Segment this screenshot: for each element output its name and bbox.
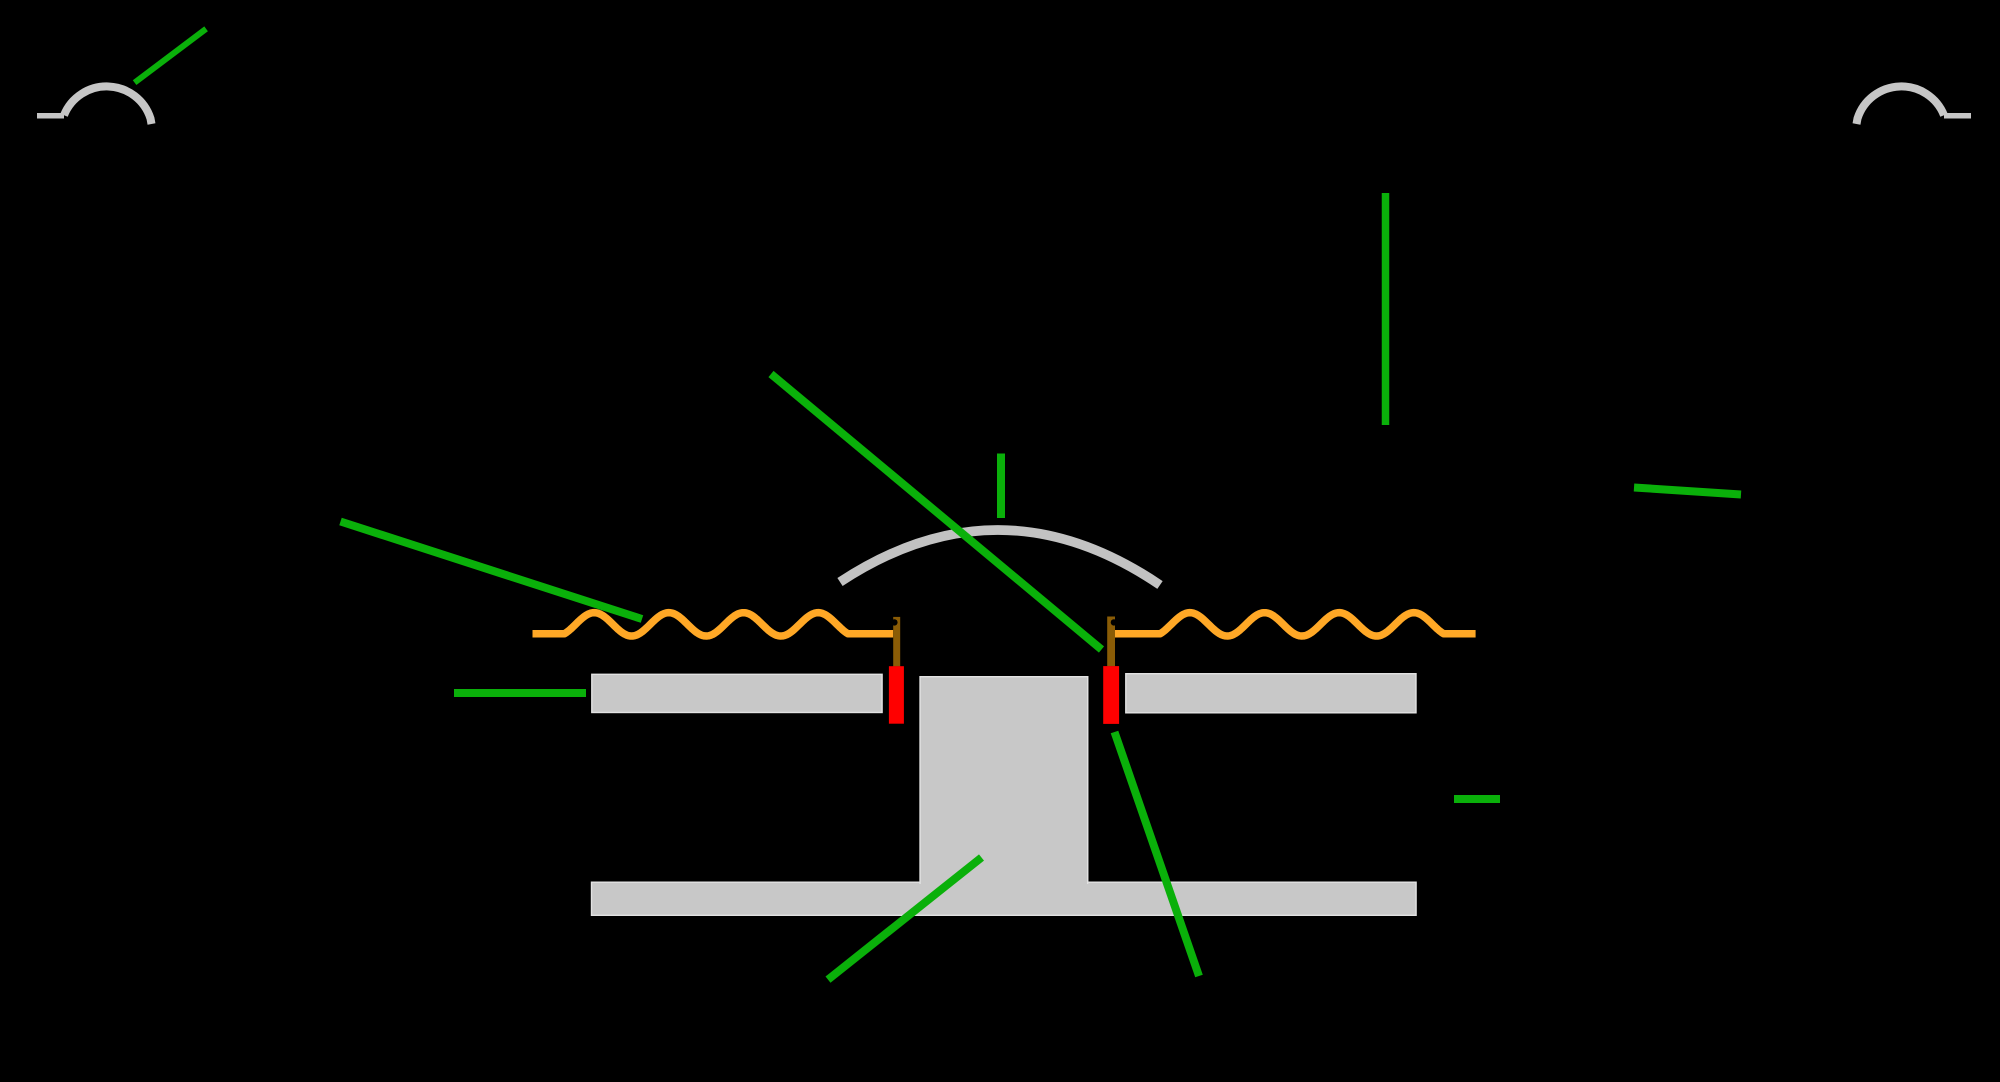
bond wire (right) xyxy=(1107,617,1117,667)
leader line L5 (long diagonal) xyxy=(771,374,1102,650)
membrane (corrugated, left half) xyxy=(533,613,894,636)
leader line L8 (short horizontal bar, right) xyxy=(1454,795,1500,803)
central pedestal block xyxy=(919,676,1088,884)
dome (diaphragm dust cap) xyxy=(840,530,1160,585)
case lid arc (top left) xyxy=(37,86,152,124)
leader line L9 (to pedestal, bottom left) xyxy=(828,858,982,980)
solder contact (right red) xyxy=(1103,666,1119,724)
leader line L10 (to solder contact, bottom right) xyxy=(1115,732,1200,976)
leader line L6 (to membrane, left) xyxy=(341,522,643,620)
leader line L2 (vertical, upper right) xyxy=(1382,193,1390,425)
case lid arc (top right) xyxy=(1857,86,1972,124)
bottom plate (substrate) xyxy=(592,882,1417,915)
solder contact (left red) xyxy=(889,666,904,724)
leader line L7 (horizontal, to left slab) xyxy=(454,689,586,697)
bond wire (left) xyxy=(891,617,900,667)
leader line L4 (vertical, above dome) xyxy=(997,454,1005,519)
leader line L3 (short diagonal, right) xyxy=(1634,488,1741,495)
membrane (corrugated, right half) xyxy=(1115,613,1476,636)
top plate (left slab) xyxy=(592,674,882,712)
leader line L1 (top left) xyxy=(135,29,207,83)
top plate (right slab) xyxy=(1126,674,1416,713)
